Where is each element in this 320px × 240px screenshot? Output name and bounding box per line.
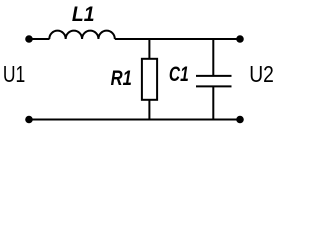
node U1+ (top-left terminal dot) [25,35,33,43]
wire C1 bottom (capacitor down to bottom rail) [212,86,214,120]
svg-text:U2: U2 [249,61,274,87]
wire R1 top (top rail down to resistor) [148,38,150,59]
svg-text:L1: L1 [72,2,95,26]
svg-text:C1: C1 [169,62,189,86]
wire inductor to top-right dot [115,38,240,40]
resistor R1 body [142,59,157,100]
wire R1 bottom (resistor down to bottom rail) [148,100,150,121]
inductor L1 [49,31,115,39]
svg-text:U1: U1 [3,61,25,87]
capacitor C1 top plate [196,75,232,77]
wire bottom rail [29,119,240,121]
capacitor C1 bottom plate [196,85,232,87]
wire top-left dot to inductor [29,38,50,40]
wire C1 top (top rail down to capacitor) [212,38,214,76]
node U2- (bottom-right terminal dot) [236,116,244,124]
node U1- (bottom-left terminal dot) [25,116,33,124]
svg-text:R1: R1 [111,66,132,90]
node U2+ (top-right terminal dot) [236,35,244,43]
